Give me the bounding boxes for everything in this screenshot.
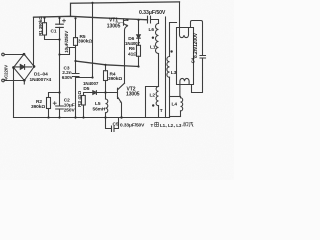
transistor VT1 bbox=[123, 19, 125, 25]
AC terminal lower bbox=[2, 79, 5, 82]
lamp tube outline bbox=[177, 28, 194, 85]
wire L2 top return staple bbox=[146, 87, 159, 118]
node VT2 base bbox=[104, 91, 106, 93]
bridge rectifier D1-D4 diamond bbox=[14, 54, 35, 81]
capacitor C6 plates in top rail bbox=[148, 16, 151, 23]
node R1 C1 join bbox=[58, 38, 60, 40]
wire bottom net to transformer bbox=[122, 117, 170, 119]
top rail bbox=[34, 16, 148, 20]
node rail C2 bbox=[58, 116, 60, 118]
lamp top filament bbox=[180, 28, 189, 38]
inductor L4 bbox=[170, 96, 181, 98]
wire node X to D6 R6 foot (slanted) bbox=[76, 61, 139, 67]
wire C6 to L1 bbox=[151, 20, 159, 24]
capacitor C5 U-detour below rail bbox=[106, 118, 112, 129]
node rail VT2 emitter bbox=[120, 116, 122, 118]
node rail R2 bbox=[47, 116, 49, 118]
node L1 polarity dot bbox=[152, 37, 154, 39]
wire AC1 to bridge top vertex bbox=[4, 53, 24, 56]
transformer winding L3 bbox=[170, 23, 177, 57]
node doubler midpoint bbox=[58, 53, 60, 55]
bottom rail bbox=[14, 117, 122, 119]
wire VT1 base stub faint bbox=[116, 22, 124, 24]
node rail VT1 collector bbox=[126, 19, 128, 21]
node L2 polarity dot bbox=[152, 104, 154, 106]
node bridge left bbox=[12, 66, 15, 69]
capacitor C4 branch bbox=[191, 21, 203, 56]
node rail C1 bbox=[58, 17, 60, 19]
node bridge bottom bbox=[23, 79, 26, 82]
wire lamp bottom-left pin to L4 bbox=[179, 85, 181, 97]
capacitor C3 bbox=[73, 74, 80, 77]
transformer winding L1 with C6 side bbox=[156, 24, 159, 54]
node rail L5 bbox=[104, 116, 106, 118]
node rail D6 bbox=[137, 19, 139, 21]
node rail R3 bbox=[82, 116, 84, 118]
diode D5 bbox=[84, 93, 118, 96]
node C3 stub bbox=[91, 76, 93, 78]
node R2 C2 bbox=[58, 91, 60, 93]
wire C3 bottom stub to trigger line bbox=[76, 77, 93, 79]
resistor R3 bbox=[82, 96, 86, 106]
wire half-bridge midpoint bbox=[125, 26, 128, 83]
node bridge top bbox=[23, 53, 26, 56]
wire AC2 to bridge bottom vertex bbox=[4, 80, 24, 82]
wire trigger line top wire down to C3 stub bbox=[92, 3, 94, 78]
resistor R2 bbox=[47, 98, 51, 109]
transformer core line bbox=[165, 17, 167, 118]
junction dots bbox=[12, 2, 173, 119]
diode D6 bbox=[138, 20, 140, 35]
node bridge right bbox=[33, 65, 36, 68]
node X R5 C3 bbox=[74, 60, 76, 62]
node R4 top bbox=[104, 64, 106, 66]
capacitor C1 electrolytic bbox=[56, 24, 64, 27]
node L3 polarity dot bbox=[170, 50, 172, 52]
lamp top pin wire bbox=[179, 2, 181, 28]
transformer winding L2 bbox=[156, 87, 158, 106]
wire DC+ riser right vertex to top rail bbox=[33, 18, 35, 67]
resistor R6 bbox=[137, 45, 141, 56]
node top wire trigger bbox=[91, 2, 93, 4]
resistor R4 bbox=[104, 71, 108, 81]
node rail R1 bbox=[43, 17, 45, 19]
node rail R5 bbox=[74, 17, 76, 19]
node D6 R6 foot bbox=[137, 65, 139, 67]
capacitor C2 electrolytic bbox=[56, 106, 64, 109]
diode inside bridge bbox=[16, 65, 32, 70]
wire doubler midpoint jog to R5 bottom bbox=[60, 48, 76, 55]
lamp bottom filament bbox=[180, 78, 189, 84]
wire stub below bridge bottom vertex bbox=[23, 81, 25, 85]
node rail C3 bbox=[74, 116, 76, 118]
resistor R1 bbox=[43, 23, 47, 35]
AC terminal upper bbox=[2, 53, 5, 56]
top bypass wire rail to lamp top pin bbox=[71, 2, 180, 16]
transistor VT2 bbox=[117, 88, 119, 98]
wire DC- drop from left vertex to bottom rail bbox=[13, 68, 15, 118]
wire L1 to L2 bbox=[158, 54, 160, 87]
resistor R5 bbox=[74, 38, 78, 46]
inductor L5 bbox=[106, 99, 108, 113]
